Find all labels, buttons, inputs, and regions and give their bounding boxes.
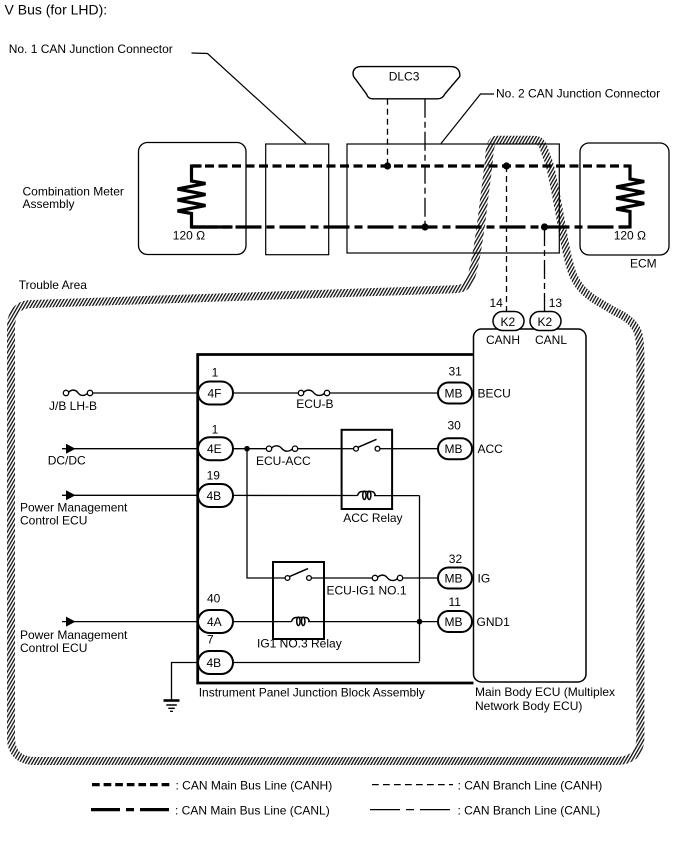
resistor 120 ohm (ECM) xyxy=(616,165,644,229)
wire pin 4F to fuse ECU-B xyxy=(233,392,299,394)
svg-text:BECU: BECU xyxy=(478,387,511,401)
legend CAN main bus line CANL xyxy=(91,808,173,811)
box No. 1 CAN junction connector xyxy=(266,144,329,255)
wire Power Management Control ECU to pin 4B(19) xyxy=(62,494,198,496)
box No. 2 CAN junction connector xyxy=(347,144,559,253)
arrow from DC/DC xyxy=(66,444,76,454)
svg-text:No. 1 CAN Junction Connector: No. 1 CAN Junction Connector xyxy=(9,42,173,56)
wire 4E branch down to IG1 relay xyxy=(247,449,287,578)
wire pin 4B(7) to relay output node xyxy=(233,662,420,664)
svg-text:4A: 4A xyxy=(207,615,222,629)
junction dot CANH-K2 xyxy=(503,162,510,169)
svg-text:CANL: CANL xyxy=(535,333,567,347)
pin MB ACC xyxy=(438,438,472,459)
svg-text:30: 30 xyxy=(448,418,462,432)
svg-text:11: 11 xyxy=(449,595,462,609)
fuse J/B LH-B xyxy=(63,390,68,395)
pin MB BECU xyxy=(438,383,472,404)
svg-text:13: 13 xyxy=(549,296,563,310)
leader line to No. 2 CAN junction connector xyxy=(441,94,494,144)
wire IG1 relay switch to fuse ECU-IG1 NO.1 xyxy=(311,577,372,579)
wire pin 4E to fuse ECU-ACC xyxy=(233,448,266,450)
svg-text:J/B LH-B: J/B LH-B xyxy=(49,399,97,413)
svg-text:4E: 4E xyxy=(207,442,222,456)
wire fuse ECU-ACC to ACC relay xyxy=(298,448,342,450)
box Combination Meter Assembly xyxy=(139,143,247,255)
wire DC/DC to pin 4E xyxy=(62,448,198,450)
svg-text:1: 1 xyxy=(212,423,219,437)
svg-text:K2: K2 xyxy=(538,315,553,329)
trouble area hatched boundary xyxy=(11,140,640,761)
svg-text:Network Body ECU): Network Body ECU) xyxy=(475,699,582,713)
svg-text:V Bus (for LHD):: V Bus (for LHD): xyxy=(5,2,108,18)
wire fuse ECU-IG1 NO.1 to pin MB IG xyxy=(403,577,438,579)
legend CAN branch line CANL xyxy=(370,809,453,811)
svg-text:DC/DC: DC/DC xyxy=(48,454,86,468)
svg-text:31: 31 xyxy=(449,364,463,378)
svg-text:32: 32 xyxy=(449,552,463,566)
svg-text:120 Ω: 120 Ω xyxy=(614,228,646,242)
junction dot CANL-DLC3 xyxy=(421,223,428,230)
relay ACC Relay box xyxy=(342,430,393,509)
connector DLC3 xyxy=(353,67,460,99)
wire stub into ACC relay switch xyxy=(342,448,354,450)
svg-text:Trouble Area: Trouble Area xyxy=(19,278,88,292)
branch line from DLC3 CANH (thin dashed) xyxy=(387,99,389,166)
junction dot CANL-K2 xyxy=(541,223,548,230)
pin 4B (7) xyxy=(198,651,233,674)
wire stub out of ACC relay switch xyxy=(380,448,392,450)
svg-text:IG1 NO.3 Relay: IG1 NO.3 Relay xyxy=(257,637,342,651)
leader line to No. 1 CAN junction connector xyxy=(192,53,307,144)
wire fuse ECU-B to pin MB BECU xyxy=(330,392,439,394)
svg-text:4F: 4F xyxy=(208,387,222,401)
arrow from Power Management Control ECU xyxy=(66,490,76,500)
ACC relay switch xyxy=(354,446,359,451)
box ECM xyxy=(580,143,669,255)
resistor 120 ohm (combination meter) xyxy=(178,165,206,229)
wire ACC relay to pin MB ACC xyxy=(392,448,438,450)
svg-text:MB: MB xyxy=(445,387,463,401)
fuse ECU-ACC xyxy=(266,446,271,451)
ground symbol xyxy=(164,699,180,702)
pin 4F xyxy=(198,382,233,405)
legend CAN main bus line CANH xyxy=(92,783,173,786)
wire vertical from relay output down to 4B(7) row xyxy=(419,496,421,662)
svg-text:: CAN Main Bus Line (CANL): : CAN Main Bus Line (CANL) xyxy=(175,803,330,817)
wire IG1 relay coil to pin MB GND1 xyxy=(308,621,438,623)
box Instrument Panel Junction Block Assembly xyxy=(198,355,474,684)
box Main Body ECU xyxy=(474,329,587,682)
connector K2 pin 13 CANL xyxy=(530,312,561,331)
wire to ground xyxy=(172,663,199,700)
wire Power Management Control ECU to pin 4A xyxy=(62,621,198,623)
svg-text:GND1: GND1 xyxy=(477,615,511,629)
svg-text:K2: K2 xyxy=(501,315,516,329)
arrow from Power Management Control ECU xyxy=(66,617,76,627)
svg-text:Control ECU: Control ECU xyxy=(20,513,87,527)
pin 4E xyxy=(198,437,233,460)
svg-text:ECU-IG1 NO.1: ECU-IG1 NO.1 xyxy=(327,584,407,598)
svg-text:Instrument Panel Junction Bloc: Instrument Panel Junction Block Assembly xyxy=(199,685,425,699)
junction dot at 4E branch xyxy=(244,446,250,452)
svg-text:40: 40 xyxy=(207,592,221,606)
svg-text:MB: MB xyxy=(445,442,463,456)
svg-text:: CAN Branch Line (CANL): : CAN Branch Line (CANL) xyxy=(458,803,601,817)
wire ACC relay coil output xyxy=(374,495,420,497)
branch line CANH to K2 pin 14 (thin dashed) xyxy=(506,166,508,312)
svg-text:Control ECU: Control ECU xyxy=(20,641,87,655)
svg-text:No. 2 CAN Junction Connector: No. 2 CAN Junction Connector xyxy=(496,87,660,101)
svg-text:ECU-ACC: ECU-ACC xyxy=(256,454,311,468)
IG1 relay switch xyxy=(285,576,290,581)
svg-text:IG: IG xyxy=(478,572,491,586)
branch line CANL to K2 pin 13 (thin dash-dot) xyxy=(544,227,546,312)
connector K2 pin 14 CANH xyxy=(493,312,524,331)
svg-text:DLC3: DLC3 xyxy=(389,69,420,83)
fuse ECU-B xyxy=(298,390,303,395)
svg-text:14: 14 xyxy=(490,296,504,310)
branch line from DLC3 CANL (thin dash-dot) xyxy=(424,99,426,227)
svg-text:MB: MB xyxy=(445,615,463,629)
pin 4A xyxy=(198,610,233,633)
svg-text:Power Management: Power Management xyxy=(20,628,128,642)
svg-text:ECU-B: ECU-B xyxy=(296,397,333,411)
svg-text:ACC Relay: ACC Relay xyxy=(343,511,402,525)
svg-text:19: 19 xyxy=(207,468,221,482)
junction dot GND1 branch xyxy=(417,619,423,625)
svg-text:ACC: ACC xyxy=(478,442,504,456)
fuse ECU-IG1 NO.1 xyxy=(372,575,377,580)
wire pin 4A to IG1 relay coil xyxy=(233,621,292,623)
IG1 relay coil xyxy=(292,618,310,622)
svg-text:: CAN Branch Line (CANH): : CAN Branch Line (CANH) xyxy=(458,778,603,792)
svg-text:120 Ω: 120 Ω xyxy=(173,228,205,242)
svg-text:7: 7 xyxy=(207,633,214,647)
svg-text:4B: 4B xyxy=(207,656,222,670)
svg-text:Main Body ECU (Multiplex: Main Body ECU (Multiplex xyxy=(475,685,615,699)
CAN main bus line CANL (dash-dot thick) xyxy=(192,225,631,228)
pin MB GND1 xyxy=(438,611,472,632)
svg-text:Assembly: Assembly xyxy=(23,197,75,211)
svg-text:1: 1 xyxy=(212,365,219,379)
svg-text:CANH: CANH xyxy=(486,333,520,347)
wire fuse J/B LH-B to pin 4F xyxy=(93,392,199,394)
junction dot CANH-DLC3 xyxy=(384,162,391,169)
pin 4B (19) xyxy=(198,484,233,507)
pin MB IG xyxy=(438,568,472,589)
relay IG1 NO.3 Relay box xyxy=(273,562,324,639)
ACC relay coil xyxy=(358,492,376,496)
svg-text:4B: 4B xyxy=(207,489,222,503)
CAN main bus line CANH (dashed thick) xyxy=(192,164,631,167)
svg-text:: CAN Main Bus Line (CANH): : CAN Main Bus Line (CANH) xyxy=(176,778,333,792)
svg-text:MB: MB xyxy=(445,572,463,586)
wire pin 4B(19) to ACC relay coil xyxy=(233,494,358,496)
legend CAN branch line CANH xyxy=(372,784,453,786)
svg-text:ECM: ECM xyxy=(630,257,657,271)
